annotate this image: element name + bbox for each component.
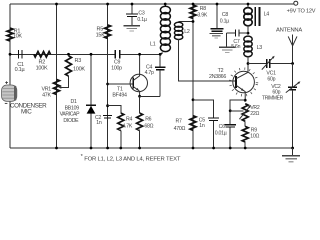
transistor T2	[233, 64, 255, 101]
wire left column (mic branch)	[9, 4, 11, 148]
svg-text:4.7p: 4.7p	[145, 70, 154, 76]
label VARICAP	[60, 112, 81, 118]
svg-text:L1: L1	[150, 41, 156, 47]
label C2	[95, 115, 101, 121]
label C6	[219, 124, 225, 130]
label ANTENNA	[276, 28, 302, 34]
varicap diode D1	[86, 105, 96, 113]
wire to main ground	[292, 148, 294, 155]
svg-text:L3: L3	[257, 45, 263, 51]
svg-text:4.7K: 4.7K	[122, 124, 132, 130]
wire emitter to C4	[140, 95, 161, 97]
svg-text:R8: R8	[200, 6, 206, 12]
mic plus terminal	[5, 81, 8, 84]
svg-text:R6: R6	[145, 116, 151, 122]
node T1 base junction	[106, 83, 109, 86]
value label 10K	[13, 34, 23, 40]
svg-text:R5: R5	[97, 26, 104, 32]
svg-text:DIODE: DIODE	[63, 118, 79, 124]
label C7	[233, 39, 239, 45]
resistor R7	[190, 116, 196, 131]
svg-text:0.01µ: 0.01µ	[215, 131, 227, 137]
value label 15K	[96, 33, 106, 39]
label T2	[218, 68, 224, 74]
resistor R5	[105, 25, 111, 39]
capacitor C3	[126, 14, 138, 17]
resistor R1	[7, 28, 13, 41]
node C6 junction	[229, 109, 232, 112]
svg-text:R3: R3	[75, 58, 82, 64]
node T1 collector	[138, 53, 141, 56]
wire VR1 wiper from R3	[60, 76, 68, 87]
wire C3 stub	[131, 4, 133, 14]
value label +9V TO 12V	[287, 8, 316, 14]
wire C4 lower stub	[159, 70, 161, 96]
label TRIMMER	[262, 95, 284, 101]
label BF494	[112, 93, 127, 99]
wire D1 column	[90, 54, 92, 148]
condenser microphone MIC1	[2, 85, 17, 101]
variable capacitor VC1	[267, 59, 270, 68]
label R3	[75, 58, 82, 64]
label R1	[14, 28, 21, 34]
trimmer VC2	[288, 87, 297, 90]
svg-text:VR2: VR2	[250, 105, 260, 111]
label L3	[257, 45, 263, 51]
resistor R9	[242, 126, 248, 142]
label L2	[184, 29, 190, 35]
value label 60p VC1	[267, 76, 275, 82]
node ground rail end	[291, 147, 294, 150]
potentiometer VR1	[54, 79, 60, 94]
value label 1n C5	[199, 123, 205, 129]
wire bottom ground rail	[10, 147, 293, 149]
transistor T2 heat rays	[229, 68, 258, 97]
wire R9 to rail	[244, 142, 246, 148]
svg-text:10Ω: 10Ω	[250, 134, 259, 140]
svg-text:MIC: MIC	[21, 109, 32, 116]
node R5 top rail	[106, 3, 109, 6]
svg-text:15K: 15K	[96, 33, 106, 39]
node C3 top rail	[131, 3, 134, 6]
value label 22ohm	[250, 111, 259, 117]
label VC1	[266, 71, 276, 77]
label BB109	[65, 105, 80, 111]
ground main	[282, 156, 300, 162]
inductor L4 core bars	[255, 7, 259, 26]
wire C5 branch	[193, 100, 214, 118]
node R7 C5 junction	[192, 98, 195, 101]
label R7	[176, 118, 182, 124]
wire R8R7 column	[192, 4, 194, 148]
label R6	[145, 116, 151, 122]
label 2N3866	[209, 74, 226, 80]
svg-text:60p: 60p	[267, 76, 275, 82]
capacitor C7	[235, 30, 239, 37]
label MIC	[21, 109, 32, 116]
svg-text:R4: R4	[126, 116, 132, 122]
svg-text:5.6n: 5.6n	[231, 44, 240, 50]
note asterisk	[81, 154, 84, 160]
capacitor C2	[103, 116, 112, 119]
label DIODE	[63, 118, 79, 124]
node L1 top rail	[164, 3, 167, 6]
value label 3.9K	[197, 13, 207, 19]
wire R5 column	[107, 4, 109, 148]
node antenna junction	[291, 62, 294, 65]
svg-text:1n: 1n	[96, 120, 102, 126]
svg-text:100K: 100K	[73, 66, 85, 72]
value label 100p	[111, 66, 122, 72]
svg-text:L4: L4	[264, 12, 270, 18]
VC2 arrow	[286, 81, 301, 92]
value label 100K R3	[73, 66, 85, 72]
svg-text:VR1: VR1	[41, 86, 51, 92]
wire L4 stub	[247, 4, 249, 8]
wiper arrow VR1	[58, 86, 61, 89]
node T2 emitter	[244, 99, 247, 102]
wire L4 to C7 node	[247, 25, 249, 33]
ground C8	[209, 34, 223, 38]
node C6 bottom rail	[229, 147, 232, 150]
svg-text:VARICAP: VARICAP	[60, 112, 81, 118]
node R4 bottom rail	[119, 147, 122, 150]
resistor R3	[66, 56, 72, 76]
value label 1n C2	[96, 120, 102, 126]
wire C5 to rail	[213, 121, 215, 148]
svg-text:68Ω: 68Ω	[144, 123, 153, 129]
svg-text:R7: R7	[176, 118, 182, 124]
svg-text:L2: L2	[184, 29, 190, 35]
svg-text:470Ω: 470Ω	[174, 126, 186, 132]
node C8 top rail	[216, 3, 219, 6]
resistor R6	[137, 113, 143, 131]
value label 4.7p	[145, 70, 154, 76]
value label 47K	[42, 92, 51, 98]
label VR1	[41, 86, 51, 92]
wire VR1 column	[56, 4, 58, 148]
wire C4 upper stub	[159, 54, 161, 67]
node D1 bottom rail	[90, 147, 93, 150]
note FOR L1 L2 L3 AND L4 REFER TEXT	[84, 156, 181, 162]
ground C7	[219, 47, 236, 52]
capacitor C6	[225, 125, 236, 127]
wire R4 to rail	[120, 131, 122, 149]
svg-text:T2: T2	[218, 68, 224, 74]
capacitor C5	[208, 118, 219, 121]
value label 470ohm	[174, 126, 186, 132]
svg-text:3.9K: 3.9K	[197, 13, 207, 19]
label T1	[117, 87, 123, 93]
transistor T1	[130, 54, 147, 96]
ground C3	[123, 26, 140, 31]
wire R6 upper	[139, 96, 141, 113]
inductor L1	[160, 4, 170, 54]
svg-text:10K: 10K	[13, 34, 23, 40]
wire C7 left	[227, 32, 236, 34]
node C4 top	[159, 53, 162, 56]
value label 0.1u C8	[220, 19, 229, 25]
capacitor C4	[155, 67, 166, 70]
wire R4 jog	[108, 106, 121, 113]
value label 5.6n	[231, 44, 240, 50]
label R9	[251, 127, 257, 133]
node C7 junction	[247, 32, 250, 35]
node C2 bottom rail	[106, 147, 109, 150]
value label 0.01u	[215, 131, 227, 137]
svg-text:FOR L1, L2, L3 AND L4, REFER T: FOR L1, L2, L3 AND L4, REFER TEXT	[84, 156, 181, 162]
value label 0.1u C1	[15, 67, 26, 73]
svg-text:R9: R9	[251, 127, 257, 133]
value label 4.7K	[122, 124, 132, 130]
label R4	[126, 116, 132, 122]
node R6 bottom rail	[138, 147, 141, 150]
wire C7 down	[226, 33, 228, 46]
svg-text:C3: C3	[138, 10, 144, 16]
inductor L2	[174, 22, 182, 39]
svg-text:BF494: BF494	[112, 93, 127, 99]
label L4	[264, 12, 270, 18]
label VR2	[250, 105, 260, 111]
label C4	[146, 64, 152, 70]
capacitor C8	[211, 29, 224, 31]
mic minus terminal	[5, 102, 8, 104]
node T2 collector junction	[247, 62, 250, 65]
node C1 junction	[9, 53, 12, 56]
label C8	[222, 12, 228, 18]
node R9 bottom rail	[244, 147, 247, 150]
wire C6 to rail	[229, 127, 231, 148]
svg-text:0.1µ: 0.1µ	[137, 17, 146, 23]
wire audio line right of C9	[120, 53, 161, 55]
wire L3 to collector node	[247, 56, 249, 63]
wire T1 base	[108, 83, 134, 85]
label R5	[97, 26, 104, 32]
wire emitter to C6	[230, 100, 245, 124]
label C1	[17, 62, 24, 68]
svg-text:C8: C8	[222, 12, 228, 18]
node R4-C2 junction	[106, 104, 109, 107]
svg-text:22Ω: 22Ω	[250, 111, 259, 117]
svg-text:C6: C6	[219, 124, 225, 130]
label D1	[71, 99, 77, 105]
node R8 top rail	[192, 3, 195, 6]
wire VC2 upper	[292, 64, 294, 87]
value label 60p VC2	[272, 90, 280, 96]
label R8	[200, 6, 206, 12]
wire L2 top tap	[179, 21, 193, 23]
svg-text:ANTENNA: ANTENNA	[276, 28, 302, 34]
inductor L3	[244, 36, 252, 57]
label C3	[138, 10, 144, 16]
svg-text:BB109: BB109	[65, 105, 80, 111]
node R7 bottom rail	[192, 147, 195, 150]
label C9	[114, 59, 120, 65]
svg-text:+9V TO 12V: +9V TO 12V	[287, 8, 316, 14]
label R2	[39, 59, 46, 65]
wire VC1 left	[248, 63, 267, 65]
value label 10ohm	[250, 134, 259, 140]
preset VR2	[242, 104, 248, 122]
capacitor C9	[115, 50, 119, 59]
node VR1 bottom rail	[55, 147, 58, 150]
label CONDENSER	[10, 103, 47, 110]
node T1 emitter	[138, 95, 141, 98]
node L4 top rail	[247, 3, 250, 6]
antenna symbol	[288, 35, 297, 64]
preset VR2 arrow	[239, 105, 250, 119]
wire C8 stub	[216, 4, 218, 28]
value label 100K R2	[36, 65, 48, 71]
svg-text:1n: 1n	[199, 123, 205, 129]
wire C7 right	[239, 32, 248, 34]
svg-text:100p: 100p	[111, 66, 122, 72]
capacitor C1	[18, 50, 22, 59]
svg-text:0.1µ: 0.1µ	[220, 19, 229, 25]
wire C6 to VR2 tap	[230, 110, 243, 112]
resistor R4	[118, 113, 124, 131]
node +9V supply terminal	[294, 1, 298, 5]
wire VC2 lower	[292, 90, 294, 148]
svg-text:D1: D1	[71, 99, 77, 105]
label VC2	[271, 84, 281, 90]
wire VC1 right	[270, 63, 293, 65]
inductor L4	[244, 8, 252, 26]
svg-text:2N3866: 2N3866	[209, 74, 226, 80]
label L1	[150, 41, 156, 47]
svg-text:100K: 100K	[36, 65, 48, 71]
VC1 arrow	[262, 56, 275, 70]
wire VR2-R9 link	[244, 121, 246, 126]
resistor R2	[34, 52, 51, 58]
value label 0.1u C3	[137, 17, 146, 23]
label C5	[199, 117, 205, 123]
wire R6 to rail	[139, 131, 141, 149]
resistor R8	[190, 5, 196, 18]
node D1 top	[90, 53, 93, 56]
svg-text:0.1µ: 0.1µ	[15, 67, 26, 73]
node VR1 top rail	[55, 3, 58, 6]
svg-text:47K: 47K	[42, 92, 51, 98]
wire L2 bottom to base	[179, 39, 236, 81]
node C5 bottom rail	[212, 147, 215, 150]
svg-text:R2: R2	[39, 59, 46, 65]
wire audio line left	[10, 53, 115, 55]
svg-text:C9: C9	[114, 59, 120, 65]
node R3 top	[67, 53, 70, 56]
wire top supply rail	[10, 3, 294, 5]
wire C3 to ground	[131, 17, 133, 25]
node L2 tap junction	[192, 20, 195, 23]
svg-text:TRIMMER: TRIMMER	[262, 95, 284, 101]
value label 68ohm	[144, 123, 153, 129]
